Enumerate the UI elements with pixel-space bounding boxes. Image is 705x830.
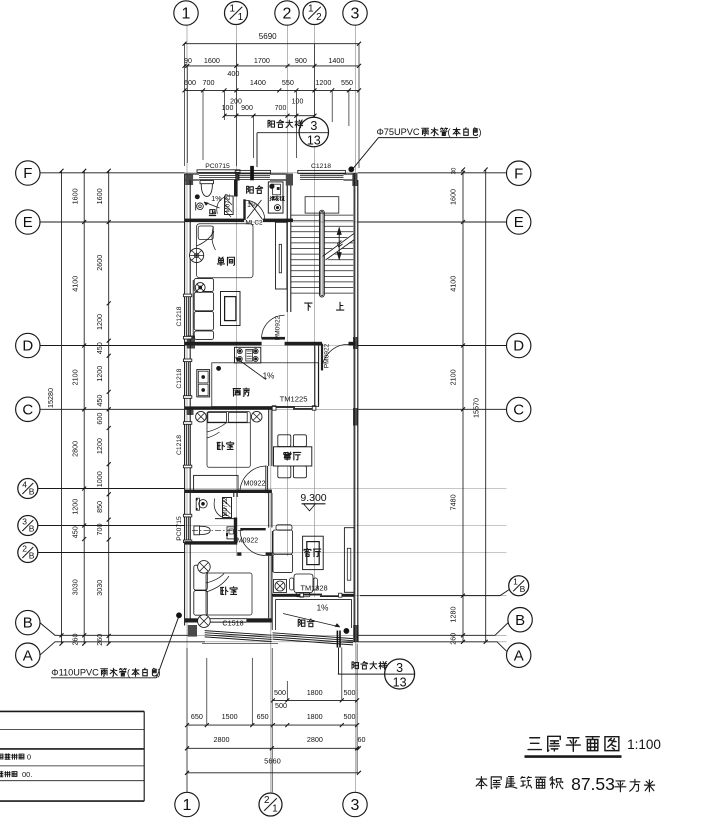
- label C1218 left-1: [176, 306, 183, 326]
- svg-text:1800: 1800: [307, 712, 323, 721]
- svg-text:1: 1: [182, 5, 191, 22]
- svg-text:1: 1: [308, 4, 314, 15]
- label TM1225: [280, 395, 308, 404]
- label PM0922 room1: [275, 315, 282, 340]
- label C1218 top: [311, 163, 331, 170]
- svg-text:B: B: [29, 551, 35, 561]
- left axis connectors: [38, 173, 205, 655]
- window PC0715 (top wall): [197, 170, 240, 180]
- door M0922 (bedroom2): [240, 528, 266, 556]
- svg-text:1600: 1600: [449, 189, 458, 205]
- wall bedroom1 bottom: [185, 490, 272, 493]
- wall bedroom2 bottom: [185, 618, 272, 622]
- svg-text:B: B: [520, 584, 526, 594]
- label canting (dining): [284, 452, 301, 460]
- label wei (WC): [209, 210, 215, 216]
- window C1518 (bedroom2 bottom): [202, 631, 278, 644]
- window PC0715 (bath2 left wall): [183, 514, 191, 542]
- svg-text:Φ75UPVC: Φ75UPVC: [376, 127, 419, 137]
- bottom dimension labels: [191, 688, 366, 766]
- column F-1: [185, 174, 193, 185]
- svg-text:1400: 1400: [328, 56, 344, 65]
- svg-text:3030: 3030: [95, 580, 104, 596]
- svg-text:C1218: C1218: [176, 435, 183, 455]
- balcony slope 1%: [247, 202, 257, 210]
- bed (bedroom1): [207, 412, 250, 468]
- svg-text:PC0715: PC0715: [176, 516, 183, 541]
- svg-text:4100: 4100: [71, 276, 80, 292]
- sofa (living): [272, 525, 292, 573]
- label C1518: [222, 618, 243, 627]
- wall row C + sliding door TM1225: [185, 406, 316, 410]
- label TM1828: [300, 584, 327, 593]
- svg-text:3: 3: [22, 516, 27, 526]
- column D-1: [187, 336, 195, 349]
- door PM0922 (kitchen): [321, 344, 354, 371]
- svg-text:650: 650: [257, 712, 269, 721]
- svg-text:1: 1: [272, 804, 278, 815]
- top dimension labels: [184, 32, 353, 112]
- bottom dimension lines: [185, 644, 361, 793]
- svg-text:D: D: [22, 338, 33, 355]
- svg-text:A: A: [514, 647, 524, 664]
- svg-text:2: 2: [316, 12, 322, 23]
- balcony section cut marks: [337, 631, 341, 648]
- left dimension lines: [60, 169, 111, 646]
- dining table and chairs: [274, 435, 312, 478]
- schedule table (bottom left, clipped): [0, 711, 144, 801]
- right dimension lines: [461, 168, 488, 644]
- wall bedroom1 east: [269, 409, 272, 466]
- label M0922 bedroom1: [244, 479, 266, 488]
- svg-text:7480: 7480: [449, 494, 458, 510]
- svg-text:550: 550: [282, 78, 294, 87]
- label woshi (bedroom2): [221, 587, 238, 595]
- svg-text:500: 500: [344, 712, 356, 721]
- svg-text:A: A: [23, 647, 33, 664]
- bath1 slope 1%: [204, 194, 222, 208]
- stair landing: [305, 197, 339, 213]
- svg-text:650: 650: [191, 712, 203, 721]
- wall bedroom2 top + east: [237, 552, 272, 618]
- window C1218 (stair top wall): [298, 170, 346, 179]
- kitchen floor outline: [212, 363, 318, 407]
- svg-text:450: 450: [95, 342, 104, 354]
- svg-text:600: 600: [95, 413, 104, 425]
- toilet (bath1): [200, 181, 214, 197]
- corner unit (living): [274, 580, 287, 593]
- svg-text:1%: 1%: [263, 372, 275, 381]
- svg-text:M0922: M0922: [237, 538, 259, 545]
- plant (room1 window): [190, 248, 204, 262]
- wall bath2 bottom: [185, 541, 238, 544]
- svg-text:15570: 15570: [472, 398, 481, 418]
- label C1218 left-3: [176, 435, 183, 455]
- svg-text:550: 550: [341, 78, 353, 87]
- column F-3: [352, 173, 357, 186]
- window C1218 (bedroom1 left wall): [183, 422, 191, 468]
- wall kitchen east: [315, 345, 319, 406]
- column B-1: [188, 625, 197, 637]
- svg-text:3: 3: [396, 661, 403, 675]
- label PC0715 left: [176, 516, 183, 541]
- svg-text:1: 1: [230, 4, 236, 15]
- detail reference 3/13 (top): [257, 117, 329, 167]
- label danjian (single room): [217, 257, 234, 266]
- armchair (living): [290, 574, 318, 597]
- door M0722 (bath1): [217, 196, 233, 217]
- svg-text:900: 900: [241, 105, 253, 112]
- svg-text:1600: 1600: [204, 56, 220, 65]
- door M0922 (bedroom1): [240, 466, 268, 493]
- stove (kitchen): [235, 347, 261, 363]
- svg-text:C1518: C1518: [222, 618, 243, 627]
- svg-text:): ): [479, 127, 482, 137]
- right dimension labels: [449, 167, 481, 645]
- wardrobe (room1): [276, 222, 287, 289]
- svg-text:1500: 1500: [222, 712, 238, 721]
- label yangtai daiyang (bottom): [352, 661, 387, 669]
- svg-text:2: 2: [283, 5, 292, 22]
- svg-text:2800: 2800: [71, 441, 80, 457]
- svg-text:450: 450: [95, 395, 104, 407]
- svg-text:1200: 1200: [95, 438, 104, 454]
- svg-text:1000: 1000: [95, 471, 104, 487]
- title: third floor plan 1:100: [525, 736, 661, 756]
- svg-text:TM1225: TM1225: [280, 395, 308, 404]
- bottom axis bubbles 1 2/1 3: [175, 792, 367, 816]
- kitchen slope 1%: [236, 358, 275, 381]
- wall row 1/B + sliding door TM1828: [272, 593, 354, 597]
- svg-text:5690: 5690: [259, 32, 277, 41]
- svg-text:700: 700: [275, 105, 287, 112]
- left axis bubbles F E D C 4/B 3/B 2/B B A: [16, 161, 40, 668]
- svg-text:90: 90: [184, 58, 192, 65]
- wash basin (bath1): [196, 202, 204, 210]
- svg-text:3030: 3030: [71, 579, 80, 595]
- svg-text:C: C: [513, 402, 524, 419]
- left dimension labels: [46, 188, 104, 645]
- svg-text:(: (: [127, 668, 130, 678]
- svg-text:850: 850: [95, 501, 104, 513]
- svg-text:MLC2: MLC2: [245, 220, 262, 227]
- table (room1): [221, 292, 241, 326]
- label phi110 UPVC rain pipe: [51, 613, 182, 678]
- label xia (down): [305, 303, 312, 310]
- label keting (living): [304, 548, 321, 556]
- balcony slope 1%: [283, 604, 340, 628]
- svg-text:1200: 1200: [315, 78, 331, 87]
- wall bath2 east: [234, 493, 237, 542]
- label shang (up): [336, 302, 343, 310]
- svg-text:2: 2: [264, 795, 270, 806]
- svg-text:450: 450: [71, 526, 80, 538]
- svg-text:1200: 1200: [71, 499, 80, 515]
- door M0722 (bath2): [214, 498, 231, 518]
- svg-text:PM0922: PM0922: [275, 315, 282, 340]
- svg-text:D: D: [513, 338, 524, 355]
- svg-text:3: 3: [310, 119, 317, 133]
- svg-text:13: 13: [393, 675, 407, 689]
- svg-text:600: 600: [184, 78, 196, 87]
- svg-text:B: B: [29, 487, 35, 497]
- svg-text:2800: 2800: [307, 735, 323, 744]
- window MLC (balcony top wall): [235, 170, 270, 179]
- svg-text:PC0715: PC0715: [205, 163, 230, 170]
- svg-text:260: 260: [449, 633, 458, 645]
- label yangtai daiyang (top): [268, 120, 303, 128]
- label yangtai (top balcony): [247, 186, 263, 194]
- right exterior wall: [354, 173, 358, 642]
- column D-3: [353, 337, 358, 349]
- svg-text:4: 4: [22, 479, 27, 489]
- svg-text:1%: 1%: [211, 194, 222, 203]
- tv cabinet (living): [344, 528, 354, 593]
- svg-text:C1218: C1218: [176, 306, 183, 326]
- top exterior wall: [185, 174, 356, 180]
- svg-text:500: 500: [275, 701, 287, 710]
- svg-text:1%: 1%: [317, 604, 329, 613]
- bedside plants (bedroom1): [196, 411, 262, 422]
- balcony south walls: [272, 597, 351, 630]
- svg-text:5660: 5660: [264, 757, 281, 766]
- elevation marker 9.300: [300, 492, 326, 511]
- label chufang (kitchen): [233, 388, 249, 396]
- right axis connectors: [340, 173, 509, 652]
- label yangtai (bottom balcony): [298, 619, 314, 627]
- svg-text:F: F: [23, 165, 32, 182]
- svg-text:1600: 1600: [95, 188, 104, 204]
- svg-text:F: F: [514, 165, 523, 182]
- svg-text:100: 100: [222, 105, 234, 112]
- svg-text:(: (: [448, 127, 451, 137]
- wall hall east: [269, 493, 272, 528]
- svg-text:C1218: C1218: [176, 368, 183, 388]
- toilet (bath2): [192, 526, 243, 535]
- svg-text:60: 60: [358, 735, 366, 744]
- bed (room1): [197, 224, 254, 278]
- door MLC2 (balcony): [243, 199, 265, 220]
- sofa (bedroom2): [194, 565, 208, 615]
- stair break line: [320, 233, 354, 263]
- stair treads: [291, 215, 353, 293]
- svg-text:3: 3: [351, 797, 360, 814]
- door PM0922 (room1): [262, 315, 285, 339]
- stair railing: [320, 210, 325, 297]
- svg-text:0: 0: [27, 753, 31, 762]
- washing machine: [268, 182, 284, 213]
- svg-text:13: 13: [307, 133, 321, 147]
- label PC0715: [205, 163, 230, 170]
- stair direction arrows: [337, 228, 341, 260]
- balcony railing (slanted lines): [273, 633, 354, 645]
- label woshi (bedroom1): [217, 442, 234, 450]
- right axis bubbles F E D C 1/B B A: [507, 161, 533, 667]
- svg-text:M0722: M0722: [222, 497, 229, 516]
- svg-text:1400: 1400: [250, 78, 266, 87]
- svg-text:B: B: [23, 615, 33, 632]
- svg-text:100: 100: [292, 99, 304, 106]
- svg-text:：: ：: [559, 778, 571, 792]
- svg-text:400: 400: [227, 69, 239, 78]
- column C-1: [187, 407, 194, 415]
- svg-text:C: C: [22, 401, 33, 418]
- svg-text:M0722: M0722: [224, 193, 231, 212]
- wall row D (room1 bottom / kitchen top): [185, 342, 356, 346]
- svg-text:500: 500: [274, 688, 286, 697]
- svg-text:B: B: [515, 612, 525, 629]
- sink (kitchen): [197, 370, 210, 397]
- label C1218 left-2: [176, 368, 183, 388]
- svg-text:1200: 1200: [95, 366, 104, 382]
- wall stairwell west: [287, 186, 291, 313]
- left exterior wall: [185, 174, 191, 626]
- tv table (living): [303, 536, 324, 569]
- wall row E (bath/balcony bottom): [185, 219, 294, 222]
- svg-text:E: E: [23, 214, 33, 231]
- rain pipe dot (balcony): [344, 628, 349, 633]
- subtitle: floor area 87.53 sqm: [476, 774, 654, 794]
- label M0722 bath2: [222, 497, 229, 516]
- plants (bedroom2): [198, 561, 211, 628]
- label M0722 bath1: [224, 193, 231, 212]
- top axis bubbles 1 1/1 2 1/2 3: [174, 1, 367, 25]
- detail reference 3/13 (bottom): [338, 648, 415, 690]
- plant (room1 sofa): [195, 283, 205, 293]
- column B-3: [353, 625, 358, 642]
- rain pipe (top): [250, 166, 254, 180]
- svg-text:900: 900: [295, 56, 307, 65]
- svg-text:9.300: 9.300: [300, 492, 326, 504]
- window C1218 (kitchen left wall): [183, 359, 191, 398]
- svg-text:3: 3: [351, 5, 360, 22]
- svg-text:Φ110UPVC: Φ110UPVC: [51, 668, 99, 678]
- label M0922 bedroom2: [237, 538, 259, 545]
- svg-text:1: 1: [183, 797, 192, 814]
- svg-text:M0922: M0922: [244, 479, 266, 488]
- sofa (room1): [193, 279, 213, 340]
- column C-3: [353, 408, 358, 426]
- svg-text:500: 500: [344, 688, 356, 697]
- svg-text:2100: 2100: [449, 369, 458, 385]
- svg-text:1600: 1600: [71, 188, 80, 204]
- svg-text:PM0922: PM0922: [324, 343, 331, 368]
- svg-text:4100: 4100: [449, 276, 458, 292]
- svg-text:87.53: 87.53: [571, 774, 615, 794]
- dresser (bedroom1): [194, 475, 238, 491]
- label MLC2: [245, 220, 262, 227]
- svg-text:2600: 2600: [95, 255, 104, 271]
- bath2 partition: [215, 518, 237, 520]
- label PM0922 kitchen: [324, 343, 331, 368]
- window C1218 (room 1 left wall): [183, 294, 191, 339]
- svg-text:C1218: C1218: [311, 163, 331, 170]
- wall bath1-balcony divider: [234, 180, 238, 197]
- svg-text:1: 1: [513, 577, 518, 587]
- kitchen drain: [217, 366, 221, 370]
- svg-text:2: 2: [22, 543, 27, 553]
- svg-text:E: E: [514, 214, 524, 231]
- svg-text:1280: 1280: [449, 607, 458, 623]
- cabinet (bath2): [226, 527, 235, 539]
- top dimension lines: [183, 42, 362, 168]
- svg-text:1800: 1800: [307, 688, 323, 697]
- svg-text:1700: 1700: [254, 56, 270, 65]
- svg-text:1:100: 1:100: [627, 737, 661, 752]
- svg-text:15280: 15280: [46, 388, 55, 408]
- svg-text:1: 1: [238, 12, 244, 23]
- svg-text:2800: 2800: [214, 735, 230, 744]
- label phi75 UPVC rain pipe: [349, 127, 482, 172]
- bed (bedroom2): [206, 573, 252, 615]
- svg-text:00.: 00.: [22, 770, 32, 779]
- svg-text:1200: 1200: [95, 314, 104, 330]
- svg-text:700: 700: [203, 78, 215, 87]
- column F-2: [286, 174, 293, 186]
- axis grid lines: [40, 25, 507, 792]
- floor drain (bath1): [195, 195, 199, 199]
- svg-text:2100: 2100: [71, 369, 80, 385]
- svg-text:B: B: [29, 524, 35, 534]
- svg-text:TM1828: TM1828: [300, 584, 327, 593]
- wash basin (bath2): [196, 498, 207, 510]
